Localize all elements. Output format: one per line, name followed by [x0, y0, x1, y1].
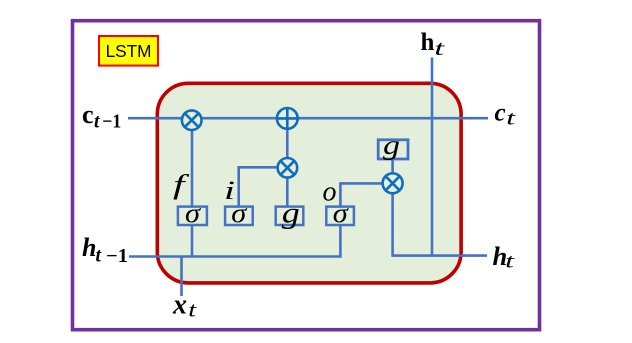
svg-text:h: h [421, 29, 435, 56]
LSTM label box [99, 36, 158, 66]
label c_t [495, 100, 516, 130]
svg-text:h: h [82, 233, 96, 262]
wire: X2 to g box [286, 174, 289, 210]
multiplier X1 (forget) [182, 110, 202, 130]
multiplier X3 (output) [383, 173, 403, 193]
svg-text:−1: −1 [102, 111, 121, 132]
svg-text:g: g [383, 130, 400, 160]
gate box sigma-f [178, 207, 207, 225]
wire: input gate i to X2 [239, 167, 280, 210]
wire: forget gate vertical (X1 to sigma-f to h-bus) [191, 126, 194, 257]
svg-text:g: g [282, 198, 300, 230]
wire: x_t drop [180, 257, 183, 297]
wire: h bus (h_{t-1} input) [129, 220, 340, 257]
svg-text:LSTM: LSTM [106, 41, 152, 61]
wire: h_t top vertical [431, 58, 434, 256]
svg-text:o: o [323, 176, 337, 207]
wire: g-top box to X3 [391, 159, 394, 176]
label h_t right [493, 241, 515, 273]
svg-text:t: t [188, 298, 197, 322]
svg-text:t: t [506, 108, 515, 130]
adder PLUS [277, 108, 298, 129]
gate box g-top (tanh of c) [378, 140, 408, 159]
svg-text:i: i [224, 176, 235, 205]
gate box sigma-o [326, 207, 354, 225]
svg-text:t: t [94, 111, 100, 132]
wire: X3 down to h output [391, 190, 394, 256]
svg-text:σ: σ [185, 198, 202, 228]
gate box g (candidate) [276, 207, 304, 225]
wire: output gate o to X3 [340, 183, 385, 210]
wire: h output right segment [391, 254, 487, 257]
label h_t top [421, 29, 447, 60]
gate box sigma-i [225, 207, 253, 225]
svg-text:t: t [434, 36, 446, 60]
outer frame [73, 21, 540, 330]
LSTM cell body [157, 83, 461, 283]
label c_{t-1} [82, 100, 121, 133]
wire: plus to X2 [286, 124, 289, 162]
wire: c-line (cell state) [128, 117, 488, 120]
svg-text:c: c [82, 100, 94, 129]
label h_{t-1} [82, 233, 128, 267]
label x_t [172, 289, 198, 321]
svg-text:t: t [505, 252, 515, 273]
svg-text:t: t [96, 246, 102, 267]
multiplier X2 (input) [278, 158, 298, 178]
svg-text:−1: −1 [106, 246, 128, 267]
svg-text:c: c [495, 100, 506, 127]
svg-text:x: x [172, 289, 187, 320]
